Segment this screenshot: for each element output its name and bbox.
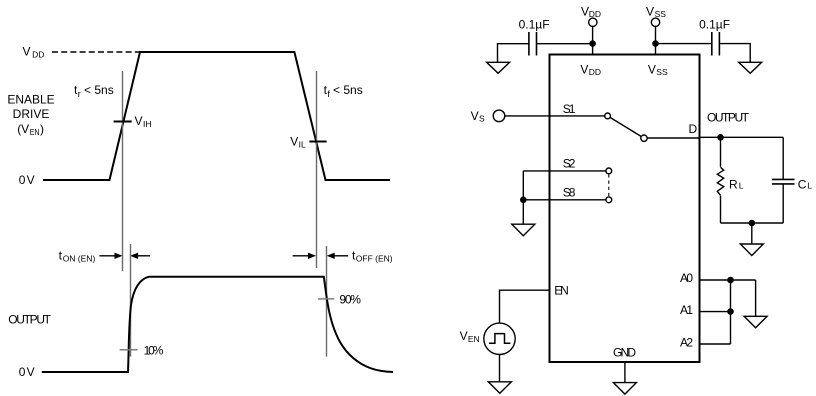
wire marker line rising-edge: [122, 71, 124, 271]
node tf < 5ns label: [324, 83, 363, 99]
svg-text:A2: A2: [680, 336, 693, 350]
svg-text:S1: S1: [563, 102, 576, 116]
IC box U1: [550, 55, 700, 363]
svg-text:V: V: [580, 62, 588, 76]
terminal VS: [493, 110, 505, 122]
junction VSS: [652, 40, 659, 47]
wire S8: [523, 199, 606, 201]
wire enable-drive waveform: [43, 52, 390, 180]
node VIL label: [290, 134, 306, 149]
wire VEN to ground: [499, 355, 501, 382]
wire S2/S8 common to ground: [522, 171, 524, 224]
svg-text:DD: DD: [589, 67, 601, 77]
svg-text:0.1µF: 0.1µF: [699, 18, 730, 32]
pin label VDD inside box: [580, 62, 601, 77]
svg-text:V: V: [135, 114, 143, 128]
svg-text:S2: S2: [563, 156, 576, 170]
svg-text:f: f: [327, 89, 330, 99]
wire EN to VEN source: [500, 290, 550, 323]
svg-text:OUTPUT: OUTPUT: [8, 313, 51, 327]
svg-text:DRIVE: DRIVE: [13, 107, 50, 121]
svg-text:A0: A0: [680, 271, 693, 285]
switch S2 contact: [606, 168, 612, 174]
wire arrow left toward output rise marker: [130, 253, 150, 259]
svg-text:90%: 90%: [339, 293, 361, 307]
wire arrow right toward falling marker: [293, 253, 316, 259]
junction A1: [727, 308, 734, 315]
node 90% tick: [318, 298, 334, 300]
svg-text:L: L: [739, 180, 744, 190]
svg-text:< 5ns: < 5ns: [333, 83, 363, 97]
svg-text:ON (EN): ON (EN): [63, 253, 96, 263]
svg-text:10%: 10%: [144, 343, 164, 357]
svg-text:R: R: [729, 177, 738, 191]
svg-text:V: V: [27, 365, 35, 379]
ground load: [740, 244, 763, 256]
svg-text:V: V: [646, 4, 654, 18]
wire VDD terminal to box: [592, 26, 594, 55]
switch S1 pole contact: [605, 113, 611, 119]
wire dashed VDD reference level: [52, 51, 140, 53]
terminal VDD: [589, 18, 597, 26]
svg-text:S: S: [479, 114, 485, 124]
wire A1: [700, 311, 731, 313]
wire output node down to RL: [720, 137, 722, 167]
svg-text:DD: DD: [589, 9, 601, 19]
svg-text:V: V: [460, 329, 468, 343]
wire dashed S2-S8 ellipsis: [608, 174, 610, 196]
node tON(EN) label: [59, 249, 96, 264]
switch S1 throw contact: [641, 135, 647, 141]
source VEN pulse generator: [484, 323, 515, 354]
svg-text:V: V: [23, 45, 31, 59]
svg-text:0: 0: [19, 173, 26, 187]
wire right capacitor to ground: [719, 44, 750, 63]
svg-text:V: V: [471, 109, 479, 123]
junction A0: [727, 277, 734, 284]
svg-text:IL: IL: [299, 139, 306, 149]
svg-text:0: 0: [19, 365, 26, 379]
svg-text:D: D: [689, 122, 698, 136]
svg-text:GND: GND: [613, 346, 636, 360]
wire arrow right toward rising marker: [99, 253, 122, 259]
capacitor CL: [772, 179, 795, 184]
node VIL tick: [309, 141, 326, 143]
wire A0-A1-A2 bus: [730, 280, 732, 344]
svg-text:SS: SS: [655, 9, 667, 19]
node tr < 5ns label: [74, 83, 114, 99]
node RL label: [729, 177, 744, 191]
ground VEN: [488, 382, 511, 394]
switch S1 blade: [610, 118, 641, 137]
wire A0 to ground: [755, 280, 757, 316]
svg-text:IH: IH: [143, 119, 152, 129]
resistor RL: [717, 167, 723, 195]
wire S1 throw to D pin: [647, 137, 700, 139]
svg-text:EN: EN: [468, 334, 480, 344]
ground right cap: [739, 62, 762, 73]
svg-text:V: V: [290, 134, 298, 148]
svg-text:0.1µF: 0.1µF: [519, 18, 550, 32]
wire load ground stub: [751, 223, 753, 244]
node 0V label upper: [19, 173, 35, 187]
svg-text:EN: EN: [554, 284, 569, 298]
node VDD level label: [23, 45, 45, 60]
ground S2/S8: [512, 224, 535, 236]
svg-text:S8: S8: [563, 186, 576, 200]
svg-text:C: C: [798, 177, 807, 191]
wire CL to bottom node: [782, 184, 784, 223]
junction load ground node: [749, 220, 756, 227]
ground left cap: [487, 62, 510, 73]
wire output waveform: [42, 277, 393, 372]
capacitor C1 0.1uF left: [529, 32, 537, 56]
svg-text:): ): [40, 122, 44, 136]
node VSS supply label: [646, 4, 666, 19]
pin label VSS inside box: [648, 62, 668, 77]
wire marker line falling-edge: [316, 71, 318, 268]
wire A2: [700, 343, 731, 345]
svg-text:OFF (EN): OFF (EN): [356, 253, 393, 263]
node ENABLE DRIVE (VEN) label: [7, 93, 54, 137]
svg-text:(V: (V: [17, 122, 29, 136]
svg-text:V: V: [27, 173, 35, 187]
wire left capacitor to ground: [498, 44, 529, 63]
wire marker line output-fall: [326, 246, 328, 357]
wire VSS junction to right capacitor: [656, 43, 712, 45]
wire GND pin to ground: [624, 362, 626, 383]
wire A0: [700, 279, 756, 281]
terminal VSS: [651, 18, 659, 26]
svg-text:< 5ns: < 5ns: [84, 83, 114, 97]
wire VS to S1 pole: [505, 115, 605, 117]
ground A pins: [744, 316, 767, 328]
wire VDD junction to left capacitor: [537, 43, 593, 45]
svg-text:SS: SS: [656, 67, 668, 77]
svg-text:OUTPUT: OUTPUT: [707, 111, 750, 125]
source VEN pulse symbol: [489, 334, 510, 344]
ground GND pin: [613, 383, 636, 395]
wire VSS terminal to box: [655, 26, 657, 55]
node VEN label: [460, 329, 480, 344]
node VIH label: [135, 114, 152, 129]
node tOFF(EN) label: [352, 249, 393, 264]
junction VDD: [589, 40, 596, 47]
capacitor C2 0.1uF right: [712, 32, 720, 56]
svg-text:r: r: [78, 89, 81, 99]
node VS label: [471, 109, 485, 124]
wire RL to bottom node: [720, 196, 722, 223]
svg-text:A1: A1: [680, 303, 693, 317]
wire bottom of load network: [721, 222, 784, 224]
wire output node to CL: [782, 137, 784, 179]
svg-text:EN: EN: [30, 127, 40, 137]
node VIH tick: [114, 121, 132, 123]
switch S8 contact: [606, 197, 612, 203]
junction S8 common: [520, 197, 527, 204]
svg-text:L: L: [807, 180, 812, 190]
svg-text:DD: DD: [32, 50, 44, 60]
svg-text:ENABLE: ENABLE: [7, 93, 54, 107]
junction output node: [717, 134, 724, 141]
wire S2: [523, 170, 606, 172]
node 10% tick: [120, 349, 138, 351]
wire D to load network: [700, 136, 784, 138]
svg-text:V: V: [648, 62, 656, 76]
wire marker line output-rise: [130, 244, 132, 357]
node VDD supply label: [581, 4, 601, 19]
node 0V label lower: [19, 365, 35, 379]
wire arrow left toward output fall marker: [327, 253, 349, 259]
node CL label: [798, 177, 813, 191]
